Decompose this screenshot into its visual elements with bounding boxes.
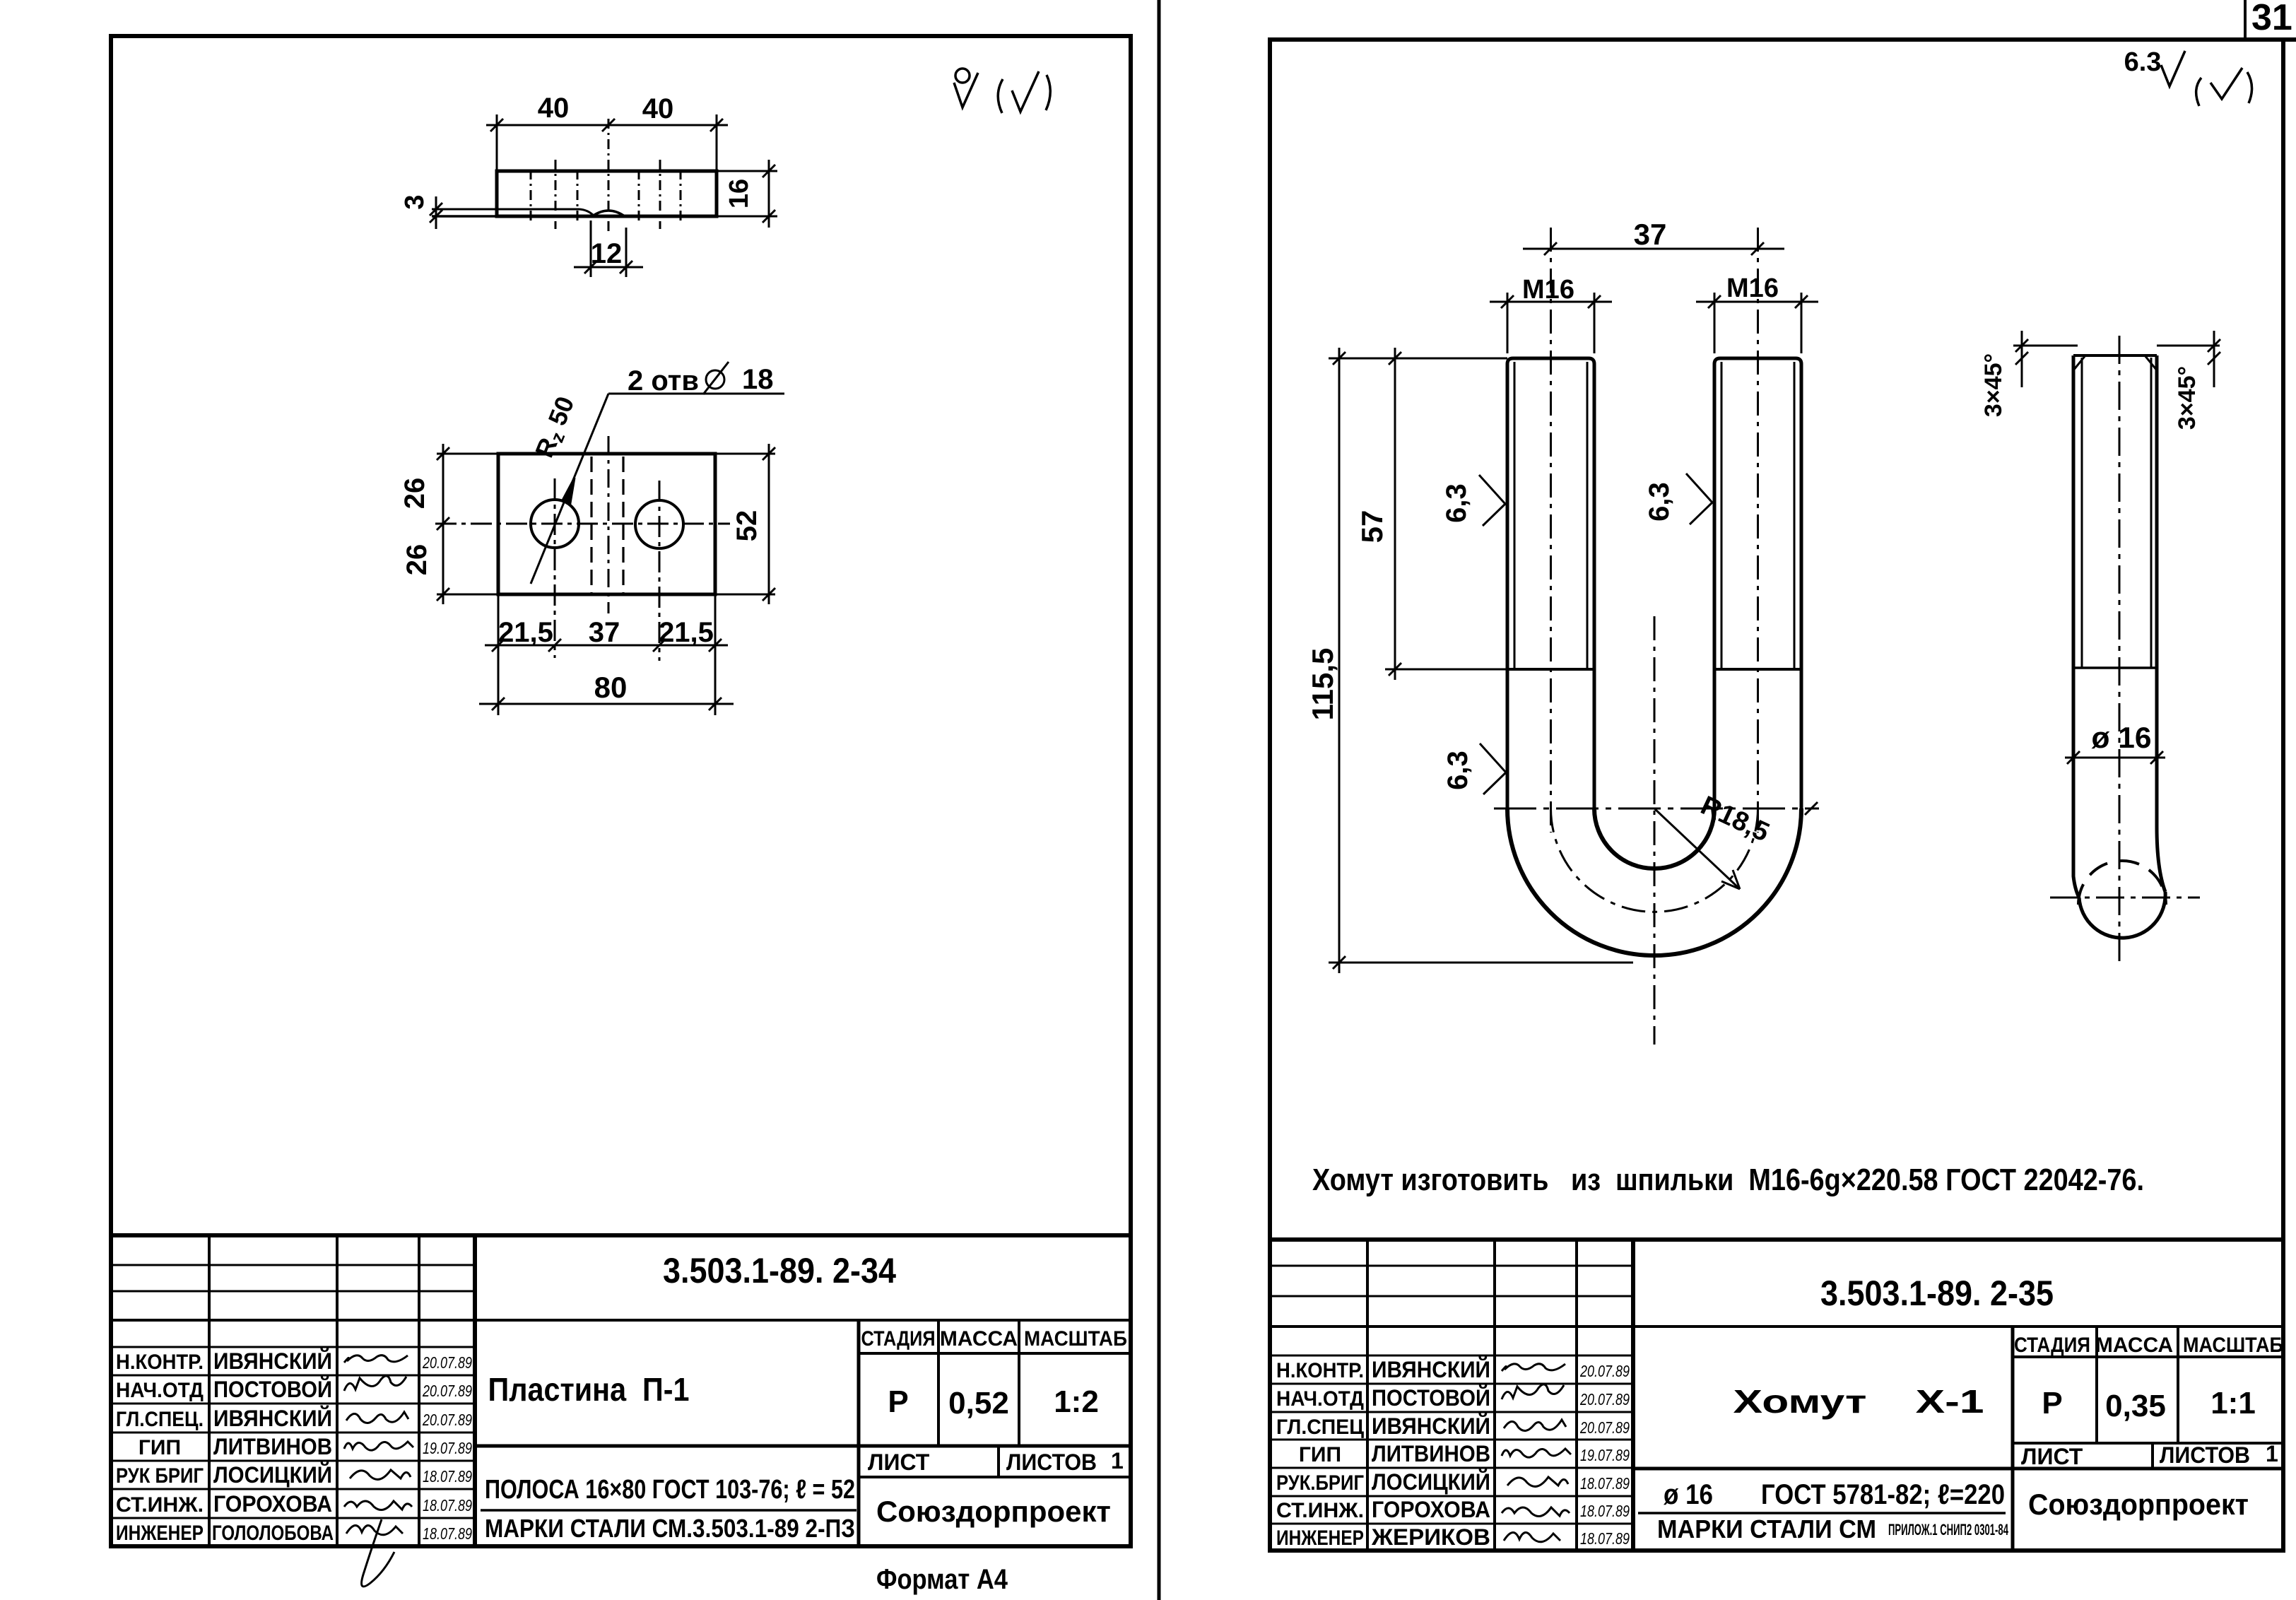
svg-text:ГОРОХОВА: ГОРОХОВА bbox=[213, 1491, 332, 1517]
svg-text:40: 40 bbox=[642, 93, 674, 124]
svg-text:6,3: 6,3 bbox=[1441, 483, 1472, 523]
rod end: solid lower semicircle bbox=[2079, 892, 2165, 938]
svg-text:3: 3 bbox=[400, 194, 430, 209]
svg-text:Р: Р bbox=[888, 1384, 908, 1419]
svg-text:37: 37 bbox=[589, 617, 620, 648]
top border extension to sheet edge bbox=[2283, 37, 2296, 42]
svg-text:26: 26 bbox=[399, 478, 430, 510]
svg-text:37: 37 bbox=[1634, 218, 1667, 251]
verticals full height bbox=[208, 1235, 211, 1546]
vertical axis of bend bbox=[1654, 616, 1656, 1045]
svg-text:ЛИТВИНОВ: ЛИТВИНОВ bbox=[213, 1434, 332, 1459]
svg-text:ЛИСТОВ: ЛИСТОВ bbox=[2160, 1442, 2250, 1468]
svg-text:ГИП: ГИП bbox=[139, 1436, 181, 1459]
svg-text:18.07.89: 18.07.89 bbox=[423, 1496, 472, 1514]
svg-text:18.07.89: 18.07.89 bbox=[1580, 1502, 1630, 1520]
sheet separator line bbox=[1158, 0, 1161, 1600]
svg-text:Формат А4: Формат А4 bbox=[876, 1564, 1008, 1595]
svg-text:СТ.ИНЖ.: СТ.ИНЖ. bbox=[116, 1493, 204, 1517]
U-bolt main view bbox=[1494, 228, 1819, 1045]
svg-text:80: 80 bbox=[594, 671, 628, 704]
thin 3mm strip bbox=[432, 208, 579, 211]
signatures + dates (right page) bbox=[1579, 1362, 1630, 1548]
centreline arc bbox=[1551, 808, 1758, 912]
svg-text:3.503.1-89. 2-34: 3.503.1-89. 2-34 bbox=[663, 1251, 896, 1290]
svg-text:ИВЯНСКИЙ: ИВЯНСКИЙ bbox=[213, 1348, 332, 1374]
svg-text:12: 12 bbox=[591, 238, 623, 269]
roughness mark group (top right of left page) bbox=[954, 69, 1050, 113]
svg-text:ЛИТВИНОВ: ЛИТВИНОВ bbox=[1372, 1441, 1490, 1466]
R18,5 leader bbox=[1654, 808, 1740, 889]
side view block (plate seen edge-on) bbox=[430, 114, 777, 277]
svg-text:6.3: 6.3 bbox=[2124, 47, 2162, 77]
svg-text:ИВЯНСКИЙ: ИВЯНСКИЙ bbox=[213, 1406, 332, 1431]
svg-text:2 отв: 2 отв bbox=[628, 365, 699, 396]
svg-text:МАРКИ СТАЛИ СМ: МАРКИ СТАЛИ СМ bbox=[1657, 1514, 1876, 1543]
left leg thread lines bbox=[1514, 362, 1516, 669]
LEFT TITLE BLOCK text bbox=[116, 1251, 1127, 1595]
svg-text:20.07.89: 20.07.89 bbox=[422, 1382, 472, 1400]
svg-text:40: 40 bbox=[538, 93, 570, 124]
svg-text:НАЧ.ОТД: НАЧ.ОТД bbox=[116, 1379, 204, 1402]
left hole bbox=[531, 500, 579, 548]
right hole bbox=[635, 500, 683, 548]
svg-text:Хомут Х-1: Хомут Х-1 bbox=[1733, 1383, 1984, 1420]
dimension 21,5 / 37 / 21,5 bbox=[485, 596, 728, 715]
svg-text:ГОСТ 5781-82; ℓ=220: ГОСТ 5781-82; ℓ=220 bbox=[1761, 1479, 2005, 1510]
horizontals bbox=[1270, 1265, 1633, 1267]
chamfer dim 3x45 left bbox=[2013, 331, 2078, 387]
dimension 52 bbox=[763, 444, 775, 604]
svg-text:6,3: 6,3 bbox=[1442, 751, 1473, 790]
dimension 40+40 bbox=[486, 114, 728, 170]
svg-text:М16: М16 bbox=[1522, 275, 1574, 305]
dimension 37 bbox=[1523, 242, 1784, 255]
signatures + dates (left page) bbox=[422, 1353, 472, 1543]
svg-text:18.07.89: 18.07.89 bbox=[1580, 1529, 1630, 1548]
horizontals bbox=[111, 1264, 475, 1266]
svg-text:Н.КОНТР.: Н.КОНТР. bbox=[116, 1351, 204, 1374]
svg-text:ЛИСТ: ЛИСТ bbox=[868, 1449, 930, 1475]
svg-text:20.07.89: 20.07.89 bbox=[1579, 1362, 1630, 1380]
svg-text:0,35: 0,35 bbox=[2105, 1389, 2166, 1423]
svg-text:ИНЖЕНЕР: ИНЖЕНЕР bbox=[1276, 1527, 1364, 1550]
svg-text:Н.КОНТР.: Н.КОНТР. bbox=[1276, 1359, 1364, 1382]
svg-text:3.503.1-89. 2-35: 3.503.1-89. 2-35 bbox=[1820, 1273, 2054, 1313]
callout: 2 holes dia 18 with Rz50 leader bbox=[531, 394, 784, 584]
svg-text:Р: Р bbox=[2042, 1386, 2062, 1420]
svg-text:НАЧ.ОТД: НАЧ.ОТД bbox=[1276, 1387, 1364, 1411]
svg-text:ГИП: ГИП bbox=[1299, 1443, 1341, 1466]
svg-text:ГЛ.СПЕЦ: ГЛ.СПЕЦ bbox=[1276, 1416, 1364, 1439]
svg-text:16: 16 bbox=[724, 179, 754, 208]
svg-text:20.07.89: 20.07.89 bbox=[1579, 1390, 1630, 1408]
svg-text:ПОЛОСА 16×80 ГОСТ 103-76; ℓ =: ПОЛОСА 16×80 ГОСТ 103-76; ℓ = 52 bbox=[485, 1475, 855, 1505]
left leg outline bbox=[1507, 358, 1594, 808]
svg-text:1:2: 1:2 bbox=[1054, 1384, 1099, 1419]
svg-text:18.07.89: 18.07.89 bbox=[1580, 1474, 1630, 1493]
svg-text:52: 52 bbox=[731, 510, 763, 542]
svg-text:МАССА: МАССА bbox=[940, 1327, 1018, 1351]
dimension M16 right bbox=[1696, 293, 1818, 353]
svg-text:ЛОСИЦКИЙ: ЛОСИЦКИЙ bbox=[1372, 1469, 1490, 1495]
dimension 26/26 bbox=[437, 444, 449, 604]
svg-text:ПРИЛОЖ.1 СНИП2 0301-84: ПРИЛОЖ.1 СНИП2 0301-84 bbox=[1888, 1521, 2008, 1539]
svg-text:21,5: 21,5 bbox=[498, 617, 553, 648]
svg-text:1: 1 bbox=[1111, 1448, 1124, 1473]
RIGHT TITLE BLOCK grid bbox=[1270, 1240, 2283, 1551]
svg-text:Хомут изготовить из шпильки: Хомут изготовить из шпильки М16-6g×220.5… bbox=[1312, 1163, 2144, 1197]
svg-text:ИВЯНСКИЙ: ИВЯНСКИЙ bbox=[1372, 1357, 1490, 1382]
page number box line bbox=[2244, 0, 2247, 40]
dimension 12 bbox=[574, 220, 643, 277]
svg-text:ГЛ.СПЕЦ.: ГЛ.СПЕЦ. bbox=[116, 1408, 204, 1431]
right leg outline bbox=[1714, 358, 1801, 808]
dia 16 dimension bbox=[2065, 751, 2165, 764]
centrelines bbox=[2119, 336, 2121, 961]
svg-text:М16: М16 bbox=[1726, 273, 1779, 303]
svg-text:21,5: 21,5 bbox=[659, 617, 714, 648]
LEFT TITLE BLOCK grid bbox=[111, 1235, 1131, 1546]
svg-text:ИНЖЕНЕР: ИНЖЕНЕР bbox=[116, 1522, 204, 1545]
svg-text:ГОРОХОВА: ГОРОХОВА bbox=[1372, 1497, 1490, 1522]
svg-text:ЛИСТОВ: ЛИСТОВ bbox=[1006, 1449, 1097, 1475]
chamfer dim 3x45 right bbox=[2157, 331, 2220, 387]
svg-text:МАРКИ СТАЛИ СМ.3.503.1-89 2-ПЗ: МАРКИ СТАЛИ СМ.3.503.1-89 2-ПЗ bbox=[485, 1514, 855, 1543]
dimension 80 bbox=[479, 698, 734, 710]
side view rod bbox=[2050, 336, 2200, 961]
svg-text:Пластина П-1: Пластина П-1 bbox=[488, 1371, 690, 1408]
svg-text:РУК БРИГ: РУК БРИГ bbox=[116, 1464, 204, 1488]
front view of plate with two holes bbox=[435, 394, 784, 715]
hidden / centre lines of side view bbox=[531, 119, 681, 233]
svg-text:6,3: 6,3 bbox=[1644, 482, 1675, 522]
svg-text:19.07.89: 19.07.89 bbox=[423, 1439, 472, 1457]
dimension 57 bbox=[1329, 348, 1507, 680]
svg-text:1: 1 bbox=[2266, 1441, 2278, 1466]
svg-text:МАСШТАБ: МАСШТАБ bbox=[1024, 1327, 1127, 1351]
svg-text:18: 18 bbox=[742, 364, 774, 395]
svg-text:СТ.ИНЖ.: СТ.ИНЖ. bbox=[1276, 1499, 1364, 1522]
svg-text:20.07.89: 20.07.89 bbox=[422, 1353, 472, 1372]
svg-text:Союздорпроект: Союздорпроект bbox=[2028, 1488, 2249, 1521]
svg-text:СТАДИЯ: СТАДИЯ bbox=[2014, 1334, 2090, 1357]
horizontal centreline of bend bbox=[1494, 808, 1819, 810]
svg-text:ЛИСТ: ЛИСТ bbox=[2021, 1444, 2083, 1469]
svg-text:3×45°: 3×45° bbox=[1980, 353, 2007, 417]
svg-text:57: 57 bbox=[1355, 510, 1389, 543]
dimension 16 bbox=[718, 160, 777, 228]
weld bump bbox=[592, 211, 625, 216]
RIGHT TITLE BLOCK text bbox=[1276, 1273, 2283, 1550]
svg-text:3×45°: 3×45° bbox=[2174, 366, 2201, 430]
U bend inner arc bbox=[1594, 808, 1714, 869]
svg-text:18.07.89: 18.07.89 bbox=[423, 1467, 472, 1486]
svg-text:ПОСТОВОЙ: ПОСТОВОЙ bbox=[1372, 1385, 1490, 1411]
svg-text:МАССА: МАССА bbox=[2095, 1334, 2173, 1357]
svg-text:СТАДИЯ: СТАДИЯ bbox=[861, 1327, 936, 1351]
svg-text:ЛОСИЦКИЙ: ЛОСИЦКИЙ bbox=[213, 1462, 332, 1488]
dimension M16 left bbox=[1490, 293, 1612, 353]
svg-text:РУК.БРИГ: РУК.БРИГ bbox=[1276, 1471, 1364, 1495]
svg-text:ГОЛОЛОБОВА: ГОЛОЛОБОВА bbox=[212, 1522, 334, 1545]
svg-text:19.07.89: 19.07.89 bbox=[1580, 1446, 1630, 1464]
RIGHT PAGE FRAME bbox=[1270, 40, 2283, 1551]
svg-text:26: 26 bbox=[401, 544, 432, 576]
svg-text:Союздорпроект: Союздорпроект bbox=[876, 1495, 1111, 1528]
svg-text:ø 16: ø 16 bbox=[2092, 721, 2152, 754]
svg-text:31: 31 bbox=[2251, 0, 2292, 38]
bend hidden lines bbox=[591, 457, 623, 596]
svg-text:115,5: 115,5 bbox=[1306, 648, 1339, 721]
svg-text:ø 16: ø 16 bbox=[1664, 1479, 1713, 1510]
right leg thread lines bbox=[1721, 362, 1723, 669]
svg-text:1:1: 1:1 bbox=[2210, 1386, 2256, 1420]
leg centrelines bbox=[1550, 228, 1552, 833]
svg-text:ЖЕРИКОВ: ЖЕРИКОВ bbox=[1371, 1524, 1490, 1550]
LEFT PAGE FRAME bbox=[111, 36, 1131, 1546]
hidden bend circle (dashed top half) bbox=[2078, 861, 2166, 905]
svg-text:ИВЯНСКИЙ: ИВЯНСКИЙ bbox=[1372, 1413, 1490, 1439]
chamfer corners bbox=[2073, 355, 2085, 370]
svg-text:ПОСТОВОЙ: ПОСТОВОЙ bbox=[213, 1377, 332, 1402]
dimension 3 bbox=[430, 196, 442, 229]
dimension 115,5 bbox=[1329, 348, 1633, 973]
svg-text:18.07.89: 18.07.89 bbox=[423, 1524, 472, 1543]
U bend outer arc bbox=[1507, 808, 1801, 955]
svg-text:МАСШТАБ: МАСШТАБ bbox=[2183, 1334, 2283, 1357]
svg-text:0,52: 0,52 bbox=[948, 1386, 1009, 1420]
svg-text:20.07.89: 20.07.89 bbox=[1579, 1418, 1630, 1437]
svg-text:20.07.89: 20.07.89 bbox=[422, 1411, 472, 1429]
hole centre horizontal line bbox=[435, 523, 730, 525]
